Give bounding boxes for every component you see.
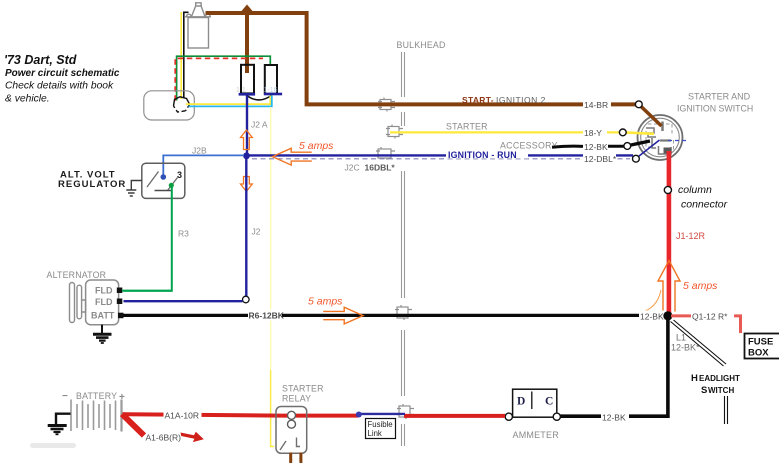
svg-text:J2: J2 (252, 227, 261, 237)
svg-text:BULKHEAD: BULKHEAD (397, 40, 446, 50)
alternator terminal FLD1 (117, 288, 123, 294)
wire: navy J2A from ballast to junction (246, 96, 248, 154)
svg-text:connector: connector (681, 199, 728, 211)
faint label under left ballast (236, 87, 248, 94)
label 12-BK (accessory) (584, 142, 608, 152)
label R3 (178, 229, 189, 239)
bulkhead connector on yellow wire (386, 125, 403, 139)
label L1 12-BK* (671, 333, 700, 353)
svg-text:IGNITION 2: IGNITION 2 (496, 95, 546, 105)
svg-text:REGULATOR: REGULATOR (58, 179, 126, 190)
ammeter terminal circle left (505, 413, 512, 420)
label J2B (192, 146, 207, 156)
svg-text:A1-6B(R): A1-6B(R) (146, 433, 182, 443)
svg-text:IGNITION SWITCH: IGNITION SWITCH (677, 104, 753, 114)
label 5 amps (J2C) (299, 140, 334, 152)
wire: black 12-BK junction down to ammeter (560, 318, 668, 416)
svg-text:WITCH: WITCH (708, 386, 734, 395)
label ACCESSORY (500, 141, 558, 151)
label IGNITION - RUN (446, 150, 528, 160)
terminal circle brown (14-BR) (635, 101, 642, 108)
label J2 (252, 227, 261, 237)
label 12-DBL* (583, 154, 617, 164)
svg-text:FLD: FLD (95, 297, 113, 307)
ignition switch inner contacts (646, 122, 674, 155)
label BATTERY (62, 391, 125, 403)
label STARTER AND IGNITION SWITCH (677, 92, 753, 114)
svg-text:Check details with book: Check details with book (5, 81, 114, 92)
wire: brown relay lead 2 (299, 453, 302, 463)
regulator ground (126, 181, 142, 197)
wire: blue J2B from regulator to junction (163, 155, 244, 176)
svg-text:FLD: FLD (95, 286, 113, 296)
label ALTERNATOR (47, 270, 107, 280)
red arrow continuation to starter (181, 432, 204, 442)
svg-text:12-DBL*: 12-DBL* (584, 154, 617, 164)
svg-text:5 amps: 5 amps (683, 280, 718, 292)
svg-text:BATTERY: BATTERY (76, 391, 117, 401)
bulkhead divider double line (402, 52, 405, 446)
wire: black R6-12BK alternator to main junction (124, 314, 667, 317)
bulkhead connector on black wire (395, 305, 412, 320)
fuse box (745, 334, 779, 359)
ignition switch contact blob (red feed) (664, 148, 672, 154)
alternator ground (93, 325, 112, 343)
terminal circle blue (12-DBL) (633, 155, 640, 162)
svg-text:−: − (62, 391, 68, 402)
arrow: 5 amps up (red column wire) (640, 261, 680, 313)
svg-text:'73 Dart, Std: '73 Dart, Std (4, 53, 77, 67)
label A1A-10R (164, 410, 202, 421)
bulkhead connector on red wire (397, 404, 414, 419)
wire: green to FLD1 terminal (122, 290, 172, 292)
connector circle on J2 at alternator (243, 296, 250, 303)
svg-text:3: 3 (177, 170, 182, 180)
wire: red battery feed to ammeter (122, 414, 505, 416)
wire: red column feed from switch to junction (667, 151, 672, 314)
svg-text:EADLIGHT: EADLIGHT (699, 374, 740, 383)
terminal circle yellow (18-Y) (619, 129, 626, 136)
label column connector (678, 184, 728, 211)
svg-text:IGNITION - RUN: IGNITION - RUN (448, 150, 517, 160)
wire: red A1-6B battery to starter (122, 414, 144, 436)
arrow: 5 amps right (mid black wire) (323, 307, 363, 324)
label 12-BK (main junction) (639, 311, 665, 322)
svg-text:column: column (678, 184, 712, 196)
voltage regulator box (142, 163, 185, 198)
wire: yellow STARTER from bulkhead to switch (390, 131, 620, 133)
label AMMETER (513, 430, 560, 440)
label ALT. VOLT REGULATOR (58, 170, 126, 191)
alternator terminal FLD2 (117, 299, 123, 305)
junction: brown diamond on coil feed (242, 5, 253, 18)
terminal circle black (12-BK) (624, 143, 631, 150)
wire: yellow coil lead (180, 12, 182, 99)
title block text (4, 53, 120, 105)
svg-text:L1: L1 (676, 333, 686, 343)
ignition coil (gray outline) (185, 3, 211, 48)
arrow: 5 amps up (at J2 node) (241, 130, 253, 150)
svg-text:R6-12BK: R6-12BK (249, 311, 285, 321)
distributor points cam polygon (174, 97, 190, 112)
column connector circle (664, 186, 671, 193)
navy cap under left ballast (239, 93, 256, 96)
svg-text:J1-12R: J1-12R (676, 231, 706, 241)
label 5 amps (red column wire) (683, 280, 718, 292)
wire: brown diagonal into switch (640, 106, 662, 127)
fusible link junction dot (356, 412, 362, 418)
svg-text:ACCESSORY: ACCESSORY (500, 141, 558, 151)
alternator terminal BATT (118, 313, 124, 319)
main junction dot (663, 311, 672, 320)
distributor (gray rounded box) (144, 91, 195, 120)
fusible link label box (366, 419, 396, 439)
svg-text:Power circuit schematic: Power circuit schematic (5, 68, 120, 79)
label 18-Y (583, 128, 607, 138)
svg-text:5 amps: 5 amps (308, 296, 343, 308)
svg-text:STARTER AND: STARTER AND (688, 92, 751, 102)
svg-text:J2 A: J2 A (251, 120, 268, 130)
wire: brown relay lead 1 (289, 453, 292, 463)
ignition switch body (circle) (638, 115, 683, 160)
wire: red Q1-12R to fuse box (671, 316, 741, 333)
label 5 amps (mid black wire) (308, 296, 343, 308)
junction J2 node dot (243, 152, 250, 159)
label START-IGNITION 2 (462, 95, 546, 105)
label J1-12R (676, 231, 706, 241)
wire: brown feed from coil to ignition switch (START-IGNITION 2) (206, 13, 638, 104)
headlight switch lead double line (725, 396, 728, 424)
label J2C 16DBL* (345, 163, 396, 173)
starter relay box (276, 407, 307, 454)
navy cap under right ballast (264, 93, 282, 96)
svg-text:AMMETER: AMMETER (513, 430, 560, 440)
regulator blue terminal (161, 174, 167, 180)
svg-text:5 amps: 5 amps (299, 140, 334, 152)
svg-text:D: D (517, 396, 525, 408)
arrow: 5 amps down (at J2 node) (241, 177, 253, 192)
alternator pulley (70, 283, 86, 323)
svg-text:A1A-10R: A1A-10R (165, 411, 200, 421)
svg-text:12-BK: 12-BK (584, 142, 608, 152)
svg-text:14-BR: 14-BR (584, 100, 608, 110)
label STARTER RELAY (282, 384, 324, 404)
wire: navy fusible link segment (359, 413, 405, 415)
wire: cyan condenser lead to ballast (189, 95, 272, 106)
resistor: ballast left (241, 65, 254, 94)
battery plates (71, 400, 122, 432)
svg-text:BATT: BATT (91, 311, 115, 321)
svg-text:STARTER: STARTER (446, 122, 488, 132)
label HEADLIGHT SWITCH (691, 373, 740, 396)
wire: black diagonal into switch (629, 141, 651, 146)
svg-text:RELAY: RELAY (282, 394, 311, 404)
svg-text:12-BK*: 12-BK* (671, 343, 700, 353)
svg-text:Link: Link (368, 429, 382, 438)
wire: green R3 regulator to alternator (123, 187, 172, 291)
svg-text:C: C (545, 396, 553, 408)
ammeter box (513, 389, 557, 417)
label J2 A (251, 120, 268, 130)
wire: black coil lead (184, 12, 189, 98)
svg-text:& vehicle.: & vehicle. (5, 94, 50, 105)
svg-text:H: H (691, 373, 698, 384)
resistor: ballast right (265, 65, 277, 94)
arrow: 5 amps left (on J2C) (273, 148, 312, 165)
svg-text:Fusible: Fusible (368, 420, 393, 429)
wire: ballast jumper arc (247, 95, 272, 100)
svg-text:FUSE: FUSE (748, 337, 773, 348)
svg-text:J2B: J2B (192, 146, 207, 156)
wire: navy J2 to alternator FLD (124, 300, 243, 302)
svg-text:ALTERNATOR: ALTERNATOR (47, 270, 107, 280)
bulkhead connector on brown wire (378, 98, 395, 112)
label A1-6B(R) (146, 433, 182, 443)
bulkhead connector on blue wire (376, 147, 395, 160)
wire: navy diagonal into switch (637, 140, 660, 158)
wire: brown drop to ballast resistor (245, 13, 249, 73)
svg-text:STARTER: STARTER (282, 384, 324, 394)
svg-text:J2C: J2C (345, 163, 360, 173)
faint label under right ballast (264, 87, 280, 94)
wire: navy ignition-run J2C to switch (249, 155, 633, 158)
wire: red dashed bypass (175, 58, 263, 100)
svg-text:Q1-12 R*: Q1-12 R* (692, 312, 728, 322)
label 14-BR (583, 100, 611, 110)
wire: yellow diagonal into switch (624, 132, 654, 133)
svg-text:START-: START- (462, 95, 494, 105)
label 12-BK (ammeter wire) (601, 411, 629, 422)
wire: black accessory to switch (552, 146, 625, 147)
label R6-12BK (248, 310, 285, 321)
wire: blue dashed stub through switch (668, 140, 687, 142)
regulator green terminal (169, 183, 174, 188)
starter relay terminal circle 1 (288, 411, 296, 419)
ammeter terminal circle right (553, 413, 560, 420)
battery ground (48, 414, 71, 435)
label Q1-12 R* (691, 311, 734, 322)
alternator body (86, 280, 119, 325)
svg-text:16DBL*: 16DBL* (365, 163, 396, 173)
wire: yellow points output to ballast (186, 96, 270, 105)
wire: navy J2 junction down to connector (245, 159, 247, 296)
wire: pale yellow drop to starter relay (271, 107, 275, 447)
bulkhead label (397, 40, 446, 50)
wire: double line to headlight switch (671, 320, 727, 366)
svg-text:BOX: BOX (748, 348, 769, 359)
svg-text:12-BK: 12-BK (640, 311, 664, 321)
faint smudge bottom left (30, 443, 76, 448)
svg-text:R3: R3 (178, 229, 189, 239)
wire: green ignition feed to ballast (177, 56, 271, 100)
starter relay terminal circle 2 (288, 420, 296, 428)
label STARTER (446, 122, 488, 132)
svg-text:S: S (701, 385, 707, 396)
svg-text:12-BK: 12-BK (602, 412, 626, 422)
svg-text:18-Y: 18-Y (584, 128, 602, 138)
